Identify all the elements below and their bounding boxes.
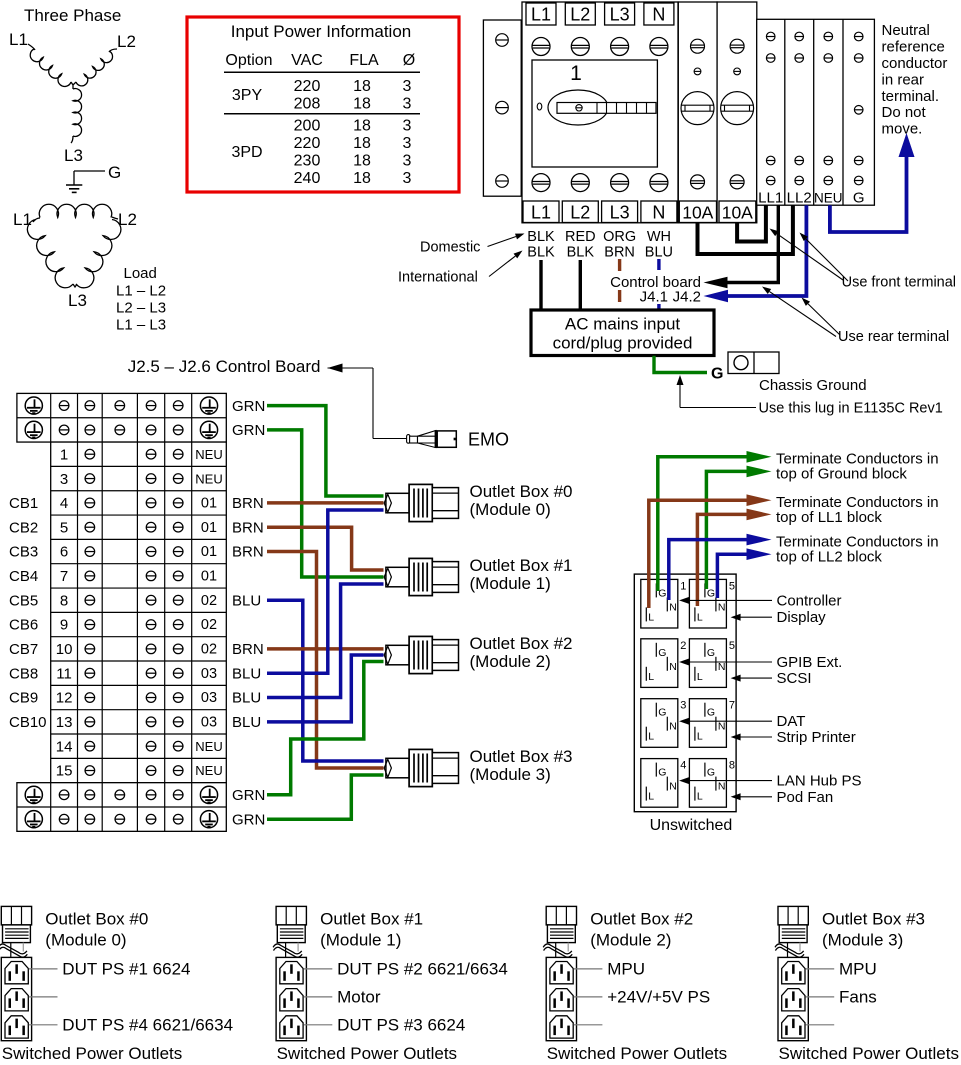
svg-text:L1: L1 xyxy=(531,203,551,223)
svg-text:MPU: MPU xyxy=(607,959,645,978)
outlet strip 3 switched power outlets xyxy=(775,906,959,1063)
svg-text:220: 220 xyxy=(294,135,321,152)
wire NEU rear terminal blue arrow to note xyxy=(830,133,915,232)
svg-text:BRN: BRN xyxy=(604,245,635,261)
svg-text:BLU: BLU xyxy=(645,245,673,261)
svg-text:Controller: Controller xyxy=(777,592,842,609)
svg-text:4: 4 xyxy=(680,760,686,772)
svg-text:DUT PS #4 6621/6634: DUT PS #4 6621/6634 xyxy=(62,1015,233,1034)
svg-text:(Module 3): (Module 3) xyxy=(470,765,551,784)
label Control board J4.1 J4.2 xyxy=(610,274,701,306)
svg-text:02: 02 xyxy=(201,617,217,633)
svg-text:ORG: ORG xyxy=(603,229,636,245)
load list xyxy=(116,265,166,334)
wire BLU CB9 to outlet box 1 xyxy=(267,584,384,698)
svg-text:CB5: CB5 xyxy=(9,592,38,609)
svg-text:L: L xyxy=(697,611,703,623)
wire GRN row1 to outlet box 0 xyxy=(267,406,384,496)
svg-text:(Module 1): (Module 1) xyxy=(320,931,401,950)
svg-text:Option: Option xyxy=(225,52,272,69)
svg-text:Outlet Box #1: Outlet Box #1 xyxy=(470,556,573,575)
svg-text:18: 18 xyxy=(353,78,371,95)
svg-text:GRN: GRN xyxy=(232,422,265,439)
label Outlet Box 0 xyxy=(470,482,573,519)
svg-text:NEU: NEU xyxy=(195,471,222,486)
connector outlet box 2 xyxy=(384,636,458,673)
wire BRN CB3 to outlet box 3 xyxy=(267,552,384,769)
label terminate ground block xyxy=(776,451,939,483)
label Outlet Box 2 xyxy=(470,634,573,671)
label Outlet Box 1 xyxy=(470,556,573,593)
svg-text:N: N xyxy=(669,781,677,793)
svg-text:Outlet Box #2: Outlet Box #2 xyxy=(470,634,573,653)
svg-text:5: 5 xyxy=(729,640,735,652)
svg-text:Neutral: Neutral xyxy=(882,22,930,39)
wire BRN CB7 to outlet box 2 xyxy=(267,647,384,651)
svg-text:220: 220 xyxy=(294,78,321,95)
arrow Display xyxy=(731,609,827,626)
svg-text:9: 9 xyxy=(60,617,68,634)
wire BLU CB8 to outlet box 0 xyxy=(267,510,384,673)
connector outlet box 1 xyxy=(384,558,458,595)
label Use front terminal xyxy=(770,229,957,291)
svg-text:Ø: Ø xyxy=(403,52,415,69)
svg-text:FLA: FLA xyxy=(349,52,379,69)
svg-text:GRN: GRN xyxy=(232,787,265,804)
title Three Phase xyxy=(24,6,121,25)
svg-text:CB3: CB3 xyxy=(9,544,38,561)
svg-text:BLK: BLK xyxy=(527,229,555,245)
svg-text:N: N xyxy=(718,601,726,613)
svg-text:L: L xyxy=(648,611,654,623)
svg-text:G: G xyxy=(707,587,715,599)
svg-text:10A: 10A xyxy=(682,203,713,223)
svg-text:top of LL1 block: top of LL1 block xyxy=(776,509,882,526)
label terminate LL2 block xyxy=(776,534,939,566)
wire BLU CB10 to outlet box 2 xyxy=(267,655,384,722)
svg-text:L3: L3 xyxy=(68,291,87,310)
delta winding top coil L1-L2 xyxy=(13,204,112,229)
delta winding left coil L1-L3 xyxy=(27,220,77,288)
svg-text:N: N xyxy=(669,661,677,673)
svg-text:L: L xyxy=(648,791,654,803)
svg-text:10A: 10A xyxy=(722,203,753,223)
svg-text:11: 11 xyxy=(56,665,72,682)
wire BRN CB1 to outlet box 0 xyxy=(267,501,384,505)
labels CB1-CB10 xyxy=(9,495,47,731)
svg-text:Input Power Information: Input Power Information xyxy=(231,22,411,41)
svg-text:1: 1 xyxy=(570,62,582,85)
svg-text:3: 3 xyxy=(403,153,412,170)
svg-text:G: G xyxy=(711,366,723,383)
svg-text:in rear: in rear xyxy=(882,71,925,88)
svg-text:J4.1: J4.1 xyxy=(640,289,668,306)
svg-text:AC mains input: AC mains input xyxy=(565,315,681,334)
svg-text:GRN: GRN xyxy=(232,811,265,828)
svg-text:G: G xyxy=(707,767,715,779)
arrow DAT xyxy=(679,713,805,730)
label Domestic xyxy=(420,234,525,256)
svg-text:12: 12 xyxy=(56,690,73,707)
connector outlet box 0 xyxy=(384,484,458,521)
label International xyxy=(398,251,523,286)
svg-text:CB6: CB6 xyxy=(9,617,38,634)
svg-text:BRN: BRN xyxy=(232,544,264,561)
terminal block LL1 LL2 NEU G xyxy=(757,19,875,206)
svg-text:Chassis Ground: Chassis Ground xyxy=(759,377,867,394)
arrow GPIB Ext xyxy=(679,654,842,671)
svg-text:01: 01 xyxy=(201,520,217,536)
wire blue unswitched 5 to LL2 block xyxy=(717,548,771,598)
svg-text:3PY: 3PY xyxy=(232,87,263,104)
svg-text:LL2: LL2 xyxy=(787,190,812,207)
ground G of wye xyxy=(66,163,121,192)
svg-text:03: 03 xyxy=(201,690,217,706)
svg-text:J4.2: J4.2 xyxy=(673,289,701,306)
svg-text:Outlet Box #1: Outlet Box #1 xyxy=(320,910,423,929)
wire CB right to LL1 front terminal xyxy=(737,205,766,241)
svg-text:Outlet Box #3: Outlet Box #3 xyxy=(470,747,573,766)
svg-text:EMO: EMO xyxy=(468,430,509,450)
arrow Controller xyxy=(679,592,841,609)
svg-text:(Module 0): (Module 0) xyxy=(45,931,126,950)
arrow Strip Printer xyxy=(731,729,856,746)
svg-text:Load: Load xyxy=(124,265,157,282)
svg-text:(Module 2): (Module 2) xyxy=(590,931,671,950)
connector outlet box 3 xyxy=(384,749,458,786)
svg-text:CB10: CB10 xyxy=(9,714,47,731)
svg-text:01: 01 xyxy=(201,496,217,512)
svg-text:NEU: NEU xyxy=(195,739,222,754)
svg-text:Do not: Do not xyxy=(882,104,927,121)
svg-text:03: 03 xyxy=(201,666,217,682)
svg-text:3: 3 xyxy=(403,170,412,187)
outlet strip 0 switched power outlets xyxy=(0,906,233,1063)
label G chassis xyxy=(711,366,723,383)
svg-text:+24V/+5V PS: +24V/+5V PS xyxy=(607,987,710,1006)
svg-text:International: International xyxy=(398,270,478,286)
svg-text:3: 3 xyxy=(60,471,68,488)
svg-text:15: 15 xyxy=(56,763,73,780)
svg-text:reference: reference xyxy=(882,39,945,56)
svg-text:L1 – L3: L1 – L3 xyxy=(116,317,166,334)
svg-text:3: 3 xyxy=(680,700,686,712)
node wye center xyxy=(71,82,76,89)
svg-text:Outlet Box #3: Outlet Box #3 xyxy=(822,910,925,929)
svg-text:BRN: BRN xyxy=(232,519,264,536)
arrow LAN Hub PS xyxy=(679,773,861,790)
svg-text:(Module 1): (Module 1) xyxy=(470,574,551,593)
svg-text:CB9: CB9 xyxy=(9,690,38,707)
label Use rear terminal xyxy=(762,287,949,346)
svg-text:BLU: BLU xyxy=(232,690,261,707)
svg-text:CB1: CB1 xyxy=(9,495,38,512)
ground bus strip left of disconnect xyxy=(483,20,521,196)
svg-text:(Module 2): (Module 2) xyxy=(470,652,551,671)
svg-text:G: G xyxy=(707,647,715,659)
svg-text:Display: Display xyxy=(777,609,827,626)
svg-text:(Module 3): (Module 3) xyxy=(822,931,903,950)
svg-text:208: 208 xyxy=(294,96,321,113)
svg-text:240: 240 xyxy=(294,170,321,187)
svg-text:N: N xyxy=(669,601,677,613)
svg-text:RED: RED xyxy=(565,229,596,245)
label Chassis Ground xyxy=(759,377,867,394)
svg-text:L: L xyxy=(697,671,703,683)
svg-text:N: N xyxy=(652,5,665,25)
svg-text:8: 8 xyxy=(729,760,735,772)
wire L2 black to AC mains xyxy=(579,260,582,311)
svg-text:14: 14 xyxy=(56,738,73,755)
svg-text:NEU: NEU xyxy=(195,447,222,462)
svg-text:1: 1 xyxy=(680,580,686,592)
terminal grid ground rows top xyxy=(17,393,226,442)
svg-text:3: 3 xyxy=(403,78,412,95)
svg-text:BLU: BLU xyxy=(232,714,261,731)
delta winding right coil L2-L3 xyxy=(76,210,137,288)
svg-text:WH: WH xyxy=(647,229,671,245)
svg-text:L2: L2 xyxy=(570,5,590,25)
wire blue unswitched 1 to LL2 block xyxy=(669,534,772,600)
svg-text:BRN: BRN xyxy=(232,641,264,658)
svg-text:G: G xyxy=(108,163,121,182)
svg-text:N: N xyxy=(652,203,665,223)
svg-text:200: 200 xyxy=(294,118,321,135)
svg-text:L: L xyxy=(697,791,703,803)
svg-text:NEU: NEU xyxy=(195,763,222,778)
svg-text:N: N xyxy=(718,721,726,733)
table Input Power Information xyxy=(187,17,459,192)
svg-text:cord/plug provided: cord/plug provided xyxy=(553,334,693,353)
svg-text:move.: move. xyxy=(882,121,923,138)
svg-text:Switched Power Outlets: Switched Power Outlets xyxy=(2,1044,182,1063)
svg-text:Switched Power Outlets: Switched Power Outlets xyxy=(779,1044,959,1063)
outlet strip 2 switched power outlets xyxy=(543,906,727,1063)
svg-text:L3: L3 xyxy=(64,146,83,165)
svg-text:1: 1 xyxy=(60,446,68,463)
wire BRN CB2 to outlet box 1 xyxy=(267,527,384,570)
svg-text:LL1: LL1 xyxy=(758,190,783,207)
wire green unswitched 1 to ground block xyxy=(658,451,772,591)
svg-text:L: L xyxy=(697,731,703,743)
wire GRN row18 to outlet box 3 xyxy=(267,775,384,819)
svg-text:Strip Printer: Strip Printer xyxy=(777,729,856,746)
label L3 of delta xyxy=(68,291,87,310)
svg-text:Use rear terminal: Use rear terminal xyxy=(838,329,949,345)
svg-text:DAT: DAT xyxy=(777,713,806,730)
arrow Pod Fan xyxy=(731,789,834,806)
svg-text:L1: L1 xyxy=(531,5,551,25)
svg-text:G: G xyxy=(658,707,666,719)
svg-text:02: 02 xyxy=(201,642,217,658)
unswitched outlet panel xyxy=(634,574,736,812)
svg-text:N: N xyxy=(718,781,726,793)
svg-text:BLK: BLK xyxy=(567,245,595,261)
wye winding L2 coil xyxy=(76,32,136,86)
svg-text:L2: L2 xyxy=(117,32,136,51)
svg-text:conductor: conductor xyxy=(882,55,948,72)
wire N blue dashed to AC mains xyxy=(657,259,660,313)
svg-text:CB2: CB2 xyxy=(9,519,38,536)
wire LL2 rear terminal to J4 blue xyxy=(704,205,807,302)
svg-text:18: 18 xyxy=(353,170,371,187)
svg-text:Switched Power Outlets: Switched Power Outlets xyxy=(277,1044,457,1063)
svg-text:G: G xyxy=(658,767,666,779)
wire GRN row2 to outlet box 1 xyxy=(267,430,384,577)
svg-text:Use this lug in E1135C Rev1: Use this lug in E1135C Rev1 xyxy=(759,401,943,417)
svg-text:G: G xyxy=(658,647,666,659)
switch 1 box with rotary handle xyxy=(532,60,657,167)
svg-text:BLU: BLU xyxy=(232,665,261,682)
wire L3 brown dashed to AC mains xyxy=(618,259,621,302)
svg-text:7: 7 xyxy=(729,700,735,712)
svg-text:L2 – L3: L2 – L3 xyxy=(116,300,166,317)
svg-text:03: 03 xyxy=(201,715,217,731)
svg-text:13: 13 xyxy=(56,714,73,731)
terminal grid numbered rows xyxy=(51,442,227,783)
svg-text:G: G xyxy=(853,190,865,207)
svg-text:L3: L3 xyxy=(610,5,630,25)
label Outlet Box 3 xyxy=(470,747,573,784)
svg-text:Motor: Motor xyxy=(337,987,381,1006)
svg-text:MPU: MPU xyxy=(839,959,877,978)
svg-text:4: 4 xyxy=(60,495,68,512)
svg-text:top of LL2 block: top of LL2 block xyxy=(776,549,882,566)
arrow SCSI xyxy=(731,670,812,687)
svg-text:DUT PS #3 6624: DUT PS #3 6624 xyxy=(337,1015,465,1034)
svg-text:01: 01 xyxy=(201,544,217,560)
svg-text:BRN: BRN xyxy=(232,495,264,512)
svg-text:Pod Fan: Pod Fan xyxy=(777,789,834,806)
svg-text:7: 7 xyxy=(60,568,68,585)
svg-text:G: G xyxy=(707,707,715,719)
outlet strip 1 switched power outlets xyxy=(273,906,508,1063)
svg-text:CB7: CB7 xyxy=(9,641,38,658)
circuit breaker CB 10A left xyxy=(678,2,717,223)
svg-text:L1: L1 xyxy=(9,30,28,49)
svg-text:N: N xyxy=(718,661,726,673)
svg-text:Outlet Box #0: Outlet Box #0 xyxy=(45,910,148,929)
svg-text:(Module 0): (Module 0) xyxy=(470,500,551,519)
svg-text:VAC: VAC xyxy=(291,52,323,69)
svg-text:18: 18 xyxy=(353,118,371,135)
circuit breaker CB 10A right xyxy=(717,2,757,223)
svg-text:Fans: Fans xyxy=(839,987,877,1006)
svg-text:Outlet Box #2: Outlet Box #2 xyxy=(590,910,693,929)
svg-text:LAN Hub PS: LAN Hub PS xyxy=(777,773,862,790)
svg-text:L: L xyxy=(648,731,654,743)
svg-text:L1: L1 xyxy=(13,210,32,229)
terminal grid ground rows bottom xyxy=(17,783,226,832)
wire GRN row17 to outlet box 2 xyxy=(267,662,384,795)
svg-text:Switched Power Outlets: Switched Power Outlets xyxy=(547,1044,727,1063)
svg-text:18: 18 xyxy=(353,96,371,113)
svg-text:8: 8 xyxy=(60,592,68,609)
svg-text:top of Ground block: top of Ground block xyxy=(776,466,907,483)
label terminate LL1 block xyxy=(776,494,939,526)
note neutral reference conductor xyxy=(882,22,948,137)
svg-text:DUT PS #1 6624: DUT PS #1 6624 xyxy=(62,959,190,978)
wire color labels on grid right xyxy=(232,398,265,829)
svg-text:BLU: BLU xyxy=(232,592,261,609)
svg-text:CB4: CB4 xyxy=(9,568,38,585)
label Use this lug in E1135C Rev1 xyxy=(677,375,943,417)
box AC mains input cord plug provided xyxy=(531,310,714,356)
svg-text:2: 2 xyxy=(680,640,686,652)
svg-text:N: N xyxy=(669,721,677,733)
label EMO xyxy=(468,430,509,450)
svg-text:6: 6 xyxy=(60,544,68,561)
svg-text:J2.5 – J2.6 Control Board: J2.5 – J2.6 Control Board xyxy=(128,357,321,376)
svg-text:L1 – L2: L1 – L2 xyxy=(116,283,166,300)
svg-text:CB8: CB8 xyxy=(9,665,38,682)
wire brown unswitched 5 to LL1 block xyxy=(697,509,771,606)
disconnect switch block xyxy=(522,0,678,223)
svg-text:Outlet Box #0: Outlet Box #0 xyxy=(470,482,573,501)
svg-text:SCSI: SCSI xyxy=(777,670,812,687)
svg-text:Three Phase: Three Phase xyxy=(24,6,121,25)
svg-text:02: 02 xyxy=(201,593,217,609)
wire BLU CB5 to outlet box 3 xyxy=(267,600,384,761)
svg-text:3: 3 xyxy=(403,96,412,113)
wire CB left to LL2 front terminal xyxy=(698,205,793,254)
svg-text:3PD: 3PD xyxy=(231,144,262,161)
label J2.5 J2.6 Control Board xyxy=(128,357,407,439)
svg-text:terminal.: terminal. xyxy=(882,88,940,105)
wye winding L3 coil xyxy=(64,89,83,165)
svg-text:18: 18 xyxy=(353,153,371,170)
wire brown unswitched 1 to LL1 block xyxy=(649,494,772,608)
label Unswitched xyxy=(650,817,733,834)
wire L1 black to AC mains xyxy=(539,260,542,311)
wye winding L1 coil xyxy=(9,30,71,86)
svg-text:L2: L2 xyxy=(570,203,590,223)
wire green AC mains to chassis ground xyxy=(654,356,707,373)
svg-text:5: 5 xyxy=(60,519,68,536)
svg-text:DUT PS #2 6621/6634: DUT PS #2 6621/6634 xyxy=(337,959,508,978)
svg-text:Domestic: Domestic xyxy=(420,240,480,256)
svg-text:BLK: BLK xyxy=(527,245,555,261)
wire green unswitched 5 to ground block xyxy=(706,466,771,589)
svg-text:3: 3 xyxy=(403,135,412,152)
connector EMO xyxy=(407,430,457,448)
svg-text:230: 230 xyxy=(294,153,321,170)
svg-text:Unswitched: Unswitched xyxy=(650,817,733,834)
svg-text:01: 01 xyxy=(201,569,217,585)
svg-text:GRN: GRN xyxy=(232,398,265,415)
svg-text:3: 3 xyxy=(403,118,412,135)
svg-text:GPIB Ext.: GPIB Ext. xyxy=(777,654,843,671)
wire color labels BLK RED ORG WH xyxy=(527,229,673,261)
svg-text:18: 18 xyxy=(353,135,371,152)
svg-text:L: L xyxy=(648,671,654,683)
svg-text:Use front terminal: Use front terminal xyxy=(842,275,956,291)
svg-text:L3: L3 xyxy=(610,203,630,223)
wire LL1 rear terminal to control board xyxy=(704,205,779,288)
svg-text:10: 10 xyxy=(56,641,73,658)
chassis ground lug xyxy=(728,352,779,374)
svg-text:NEU: NEU xyxy=(814,191,843,206)
svg-text:5: 5 xyxy=(729,580,735,592)
